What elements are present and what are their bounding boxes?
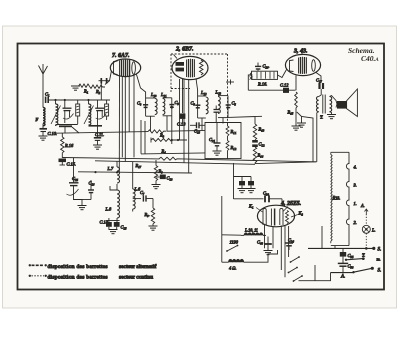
wire T1 drop pair b (144, 121, 146, 154)
svg-text:L₁₁: L₁₁ (160, 92, 167, 97)
capacitor C11 (94, 132, 104, 145)
svg-text:L.7: L.7 (107, 166, 115, 171)
wire C9 leg down (171, 116, 173, 144)
capacitor C30 (263, 191, 282, 203)
wire junction group2 to bus (72, 127, 79, 133)
variable capacitor C3 (95, 100, 106, 126)
wire bus1 long with series resistor R4 (62, 157, 316, 162)
svg-text:C₅₅: C₅₅ (348, 253, 354, 258)
svg-text:L.8: L.8 (105, 207, 113, 212)
capacitor C13 block (177, 114, 186, 127)
label K1 (248, 204, 263, 213)
svg-text:C₁₆: C₁₆ (89, 181, 95, 186)
choke 4ohm (222, 259, 244, 270)
svg-text:7. 6A7.: 7. 6A7. (112, 53, 130, 59)
svg-text:T.: T. (320, 115, 323, 120)
tube U4 electrode 3 (280, 208, 283, 225)
svg-text:R₁₅: R₁₅ (287, 110, 294, 115)
svg-text:R₁₂: R₁₂ (230, 145, 237, 150)
wire bus3 osc feed (78, 172, 192, 173)
wire caps top link (106, 220, 120, 222)
tube U1 6A7 envelope (110, 59, 140, 77)
ground C48 (264, 251, 273, 255)
wire IF2 secondary down (222, 118, 224, 124)
svg-text:C₂₅: C₂₅ (72, 176, 78, 181)
tube U2 grid bars (187, 59, 195, 78)
wire padder drop (73, 158, 75, 183)
ground padder (78, 206, 87, 210)
capacitor C7 (140, 190, 153, 202)
svg-text:R₉.: R₉. (144, 212, 150, 217)
svg-text:L₁₃: L₁₃ (215, 90, 222, 95)
transformer T primary (317, 95, 322, 113)
wire link bus drop (233, 163, 235, 199)
IF1 capacitor C8 (137, 98, 148, 116)
svg-text:L.: L. (371, 228, 376, 233)
resistor R16 vertical (61, 133, 74, 158)
variable capacitor C25 padder (67, 176, 79, 195)
svg-text:R.16.: R.16. (257, 82, 267, 87)
wire shield tick (226, 80, 234, 85)
capacitor C16 (88, 180, 95, 200)
svg-text:S.: S. (378, 248, 382, 253)
svg-text:K₁: K₁ (248, 204, 254, 209)
wire group3 bottom bar (89, 126, 103, 138)
wire loop right up (297, 112, 313, 162)
resistor R14 (253, 147, 263, 164)
switch barrette 3 (293, 275, 303, 282)
svg-text:2.: 2. (354, 220, 357, 225)
svg-text:R₃: R₃ (159, 133, 165, 138)
title Schema C40.A (348, 46, 379, 63)
svg-text:F: F (35, 117, 39, 122)
wire left feed drop (321, 226, 323, 248)
svg-text:secteur alternatif: secteur alternatif (119, 263, 157, 270)
svg-text:C₅₆: C₅₆ (348, 264, 354, 269)
R16 left hook (250, 73, 252, 77)
IF1 primary winding (146, 92, 158, 116)
wire C7 run (133, 198, 141, 200)
wire R3 run (151, 133, 187, 143)
wire mains bus 1 (308, 247, 374, 249)
wire C30 to tube (281, 199, 283, 206)
svg-text:C₂₄: C₂₄ (288, 238, 294, 243)
svg-text:1.: 1. (354, 201, 357, 206)
svg-text:C.12: C.12 (280, 83, 289, 88)
wire U1 lead 1 (118, 76, 120, 172)
ground C11 (93, 145, 102, 149)
ground loop stub (301, 117, 303, 123)
wire group2 bottom bar (56, 125, 78, 134)
svg-text:C₉: C₉ (175, 100, 180, 105)
capacitor C15 (59, 159, 77, 167)
capacitor C21 (209, 123, 221, 151)
junction dot IF1 (171, 106, 174, 109)
wire y90 run (248, 89, 295, 91)
resistor R12 divider (226, 141, 237, 159)
svg-text:disposition des barrettes: disposition des barrettes (48, 264, 108, 270)
svg-text:C₁: C₁ (45, 92, 50, 97)
junction dots bus100 (54, 99, 89, 101)
svg-text:C.15.: C.15. (67, 162, 77, 167)
label K2 (291, 211, 303, 218)
svg-text:3, 43.: 3, 43. (293, 49, 308, 55)
wire filter node (234, 176, 252, 178)
capacitor C12b block (280, 83, 289, 93)
ground antenna coil (39, 136, 48, 140)
ground osc caps (109, 230, 118, 234)
resistor R13 (253, 116, 264, 139)
oscillator coil L7 (107, 161, 120, 183)
capacitor C23 block (248, 177, 254, 189)
transformer T secondary (320, 96, 336, 120)
wire mains bus 2 (331, 272, 354, 274)
wire C26 stub (257, 63, 259, 67)
resistor R box 2 (105, 100, 109, 120)
svg-text:C₄₈: C₄₈ (257, 240, 263, 245)
wire U2 lead 3 (188, 79, 190, 172)
svg-text:R₁₄: R₁₄ (257, 153, 264, 158)
capacitor C18 block (156, 175, 173, 185)
capacitor C13b block (114, 222, 127, 230)
wire bottom link (299, 273, 331, 281)
wire osc link (82, 199, 91, 201)
tube U2 shield box dashed (171, 54, 228, 123)
transformer T core (323, 95, 325, 114)
capacitor C22 block (239, 177, 245, 189)
svg-text:R₁₇: R₁₇ (135, 163, 142, 168)
tube U3 top stub (301, 48, 303, 55)
ground grid leak (71, 86, 80, 90)
capacitor C14 block (100, 218, 112, 229)
AVC box (205, 123, 241, 159)
tube U1 left electrode (114, 61, 118, 75)
resistor R16 box (252, 71, 278, 86)
variable capacitor C2 (63, 100, 74, 123)
svg-text:secteur continu: secteur continu (119, 274, 153, 280)
resistor R18 right edge with taps (346, 152, 349, 245)
speaker magnet (336, 101, 347, 109)
svg-text:C₁₇: C₁₇ (316, 78, 322, 83)
coil L3 tuned (84, 100, 94, 125)
ground C21 (213, 151, 222, 155)
svg-text:L₁₂: L₁₂ (200, 90, 207, 95)
wire heater feed vertical (221, 196, 223, 262)
wire U4 lead 3 (280, 226, 282, 271)
wire AVC down (100, 84, 102, 101)
svg-text:1190: 1190 (230, 240, 239, 245)
tube U4 heater (286, 211, 289, 224)
svg-text:C₅: C₅ (232, 101, 237, 106)
tube U1 grid bars (120, 60, 130, 77)
resistor R8 (154, 160, 163, 181)
svg-text:S.: S. (378, 269, 382, 274)
svg-text:disposition des barrettes: disposition des barrettes (48, 274, 108, 280)
wire R18 bottom stub (334, 246, 336, 249)
capacitor C12 blocks (252, 140, 265, 147)
IF2 capacitor C6 (191, 96, 201, 118)
choke L10-11 (241, 228, 266, 236)
resistor R18 body (331, 152, 349, 245)
wire U1 lead 2 (121, 76, 123, 157)
capacitor C56 (338, 263, 354, 272)
wire loop right vertical (255, 162, 317, 164)
tube U2 cathode plates (176, 62, 185, 71)
svg-text:R₈: R₈ (158, 169, 164, 174)
capacitor C19 stub (214, 106, 220, 123)
svg-text:R₂: R₂ (95, 89, 101, 94)
wire bus2 long (95, 161, 255, 165)
wire C30 run (234, 198, 264, 200)
capacitor C10 (40, 129, 58, 136)
capacitor grid coupling ticks (99, 78, 110, 84)
wire U3 cathode drop (295, 76, 297, 91)
IF1 secondary winding (160, 92, 172, 116)
switch S2 lever (352, 267, 374, 274)
ground R8 (152, 185, 161, 189)
tube U3 left electrode (290, 60, 294, 72)
wire padder to ground (74, 186, 83, 205)
svg-text:C₈: C₈ (137, 101, 142, 106)
wire U4 lead K1 (264, 225, 266, 248)
resistor R21 series in bus (148, 130, 166, 133)
tube U1 anode loop (132, 62, 136, 74)
wire IF2 primary down (201, 118, 203, 131)
wire T1 drop pair a (140, 120, 142, 154)
wire U1 lead 3 (124, 77, 126, 162)
coil L1 antenna primary (35, 100, 46, 129)
wire field coil drop (316, 113, 318, 162)
svg-text:2, 6B7.: 2, 6B7. (175, 47, 194, 53)
svg-text:C₂₆.: C₂₆. (263, 64, 270, 69)
coil L2 tuned (51, 100, 61, 126)
wire grid to U3 (278, 70, 287, 78)
wire staircase heater (244, 250, 278, 262)
legend text 1 (48, 263, 157, 270)
antenna (39, 64, 48, 100)
wire mid drop (314, 265, 316, 281)
dial lamp L (362, 225, 375, 233)
R16 left x mark (250, 77, 254, 80)
tube U3 grid bars (299, 57, 307, 74)
wire U4 lead mid (272, 227, 274, 249)
capacitor C55 block (340, 248, 354, 263)
resistor R9b (144, 199, 155, 226)
switch barrette osc (226, 245, 238, 252)
tube U2 envelope (172, 56, 208, 79)
ground R15 (292, 126, 301, 130)
wire bus y131 right part (167, 129, 206, 132)
svg-text:C₇: C₇ (140, 190, 145, 195)
wire y153 run (141, 153, 205, 154)
svg-text:R₁: R₁ (83, 89, 89, 94)
capacitor C24 (285, 238, 294, 251)
terminal S1 (372, 247, 381, 253)
svg-text:R₁₃: R₁₃ (258, 127, 265, 132)
wire U2 lead 2 (183, 79, 185, 162)
label A arrow (360, 203, 368, 214)
coil tap wire (110, 184, 117, 190)
svg-text:C₆: C₆ (191, 101, 196, 106)
svg-text:C₁₈: C₁₈ (167, 176, 173, 181)
capacitor C48 (257, 237, 272, 251)
svg-text:C₁₂: C₁₂ (259, 142, 265, 147)
wire U2 lead 1 (179, 79, 181, 140)
ground R9b (149, 226, 158, 230)
tube U2 anode zigzag (200, 60, 204, 75)
wire IF1 secondary down (166, 116, 168, 132)
wire IF1 primary down (150, 116, 152, 131)
tube U2 grid cap tick (174, 55, 178, 59)
wire R16 left drop (248, 75, 252, 90)
tube U4 electrode 2 (271, 209, 274, 226)
svg-text:C.13: C.13 (177, 122, 186, 127)
coil L6 (133, 162, 141, 212)
IF2 primary winding (198, 90, 209, 118)
svg-text:R₁₁: R₁₁ (230, 129, 237, 134)
wire U3 plate drop (316, 73, 321, 84)
switch T lever (345, 253, 365, 261)
svg-text:C₁₆: C₁₆ (194, 129, 200, 134)
svg-text:4.: 4. (354, 165, 357, 170)
svg-text:A.: A. (340, 275, 345, 280)
resistor R1 (76, 84, 90, 94)
dial lamp L dotted feed (365, 214, 367, 225)
svg-text:A.: A. (360, 203, 365, 208)
speaker horn (347, 89, 358, 117)
svg-text:T.: T. (362, 253, 365, 258)
tube U4 electrode 1 (263, 208, 266, 225)
wire U2 lead 4 (182, 79, 184, 113)
wire U1 lead 5 (133, 76, 135, 158)
switch barrette 1 (290, 256, 300, 263)
ground transformer (327, 115, 336, 119)
ground C23 (247, 189, 256, 193)
wire U1 lead 4 (128, 76, 130, 132)
wire antenna bus y100 (48, 99, 110, 101)
tube U4 envelope (257, 205, 294, 227)
svg-text:R.16: R.16 (64, 143, 74, 148)
wire U4 lead K2 (288, 226, 290, 257)
IF1 capacitor C9 (169, 98, 179, 116)
svg-text:3.: 3. (354, 183, 357, 188)
wire grid to tube1 (105, 71, 112, 85)
resistor R box 1 (76, 100, 80, 124)
wire U2 plate to IF2 (196, 79, 198, 97)
tube U4 label (280, 201, 302, 212)
switch barrette 2 (288, 267, 298, 274)
svg-text:m.: m. (377, 257, 381, 262)
svg-text:C₃₀: C₃₀ (263, 191, 269, 196)
capacitor C20 (190, 122, 205, 133)
wire choke link (222, 234, 241, 236)
resistor R11 divider (226, 123, 237, 141)
svg-text:K₂: K₂ (298, 211, 304, 216)
tube U3 envelope (285, 54, 320, 75)
IF2 capacitor C5 (226, 96, 237, 118)
capacitor C17 (316, 78, 323, 96)
ground C22 (238, 189, 247, 193)
resistor R2 (90, 85, 106, 94)
legend symbol dotted (29, 275, 47, 277)
svg-text:C₂₁: C₂₁ (209, 137, 215, 142)
IF2 secondary winding (215, 90, 229, 118)
svg-text:4 Ω.: 4 Ω. (229, 266, 237, 271)
svg-text:R₄: R₄ (161, 149, 167, 154)
dial lamp lower dotted (365, 233, 367, 247)
wire bus y132 (56, 132, 149, 134)
legend text 2 (48, 274, 154, 280)
wire U1 plate to IF1 (137, 75, 146, 99)
wire coil bottom (116, 218, 118, 222)
resistor R15 (287, 92, 298, 126)
capacitor C1 (45, 92, 50, 104)
wire cathode loop top (228, 116, 262, 117)
capacitor C26 (255, 64, 270, 72)
oscillator coil L8 (105, 190, 120, 218)
tube U3 anode loop (312, 60, 316, 72)
wire U4 lead 4 (284, 226, 286, 277)
ground loop (297, 123, 306, 127)
svg-text:L₁₀: L₁₀ (150, 92, 157, 97)
svg-text:C₁₅: C₁₅ (121, 225, 127, 230)
junction dots bus3 (94, 171, 118, 173)
legend symbol solid (29, 264, 47, 266)
